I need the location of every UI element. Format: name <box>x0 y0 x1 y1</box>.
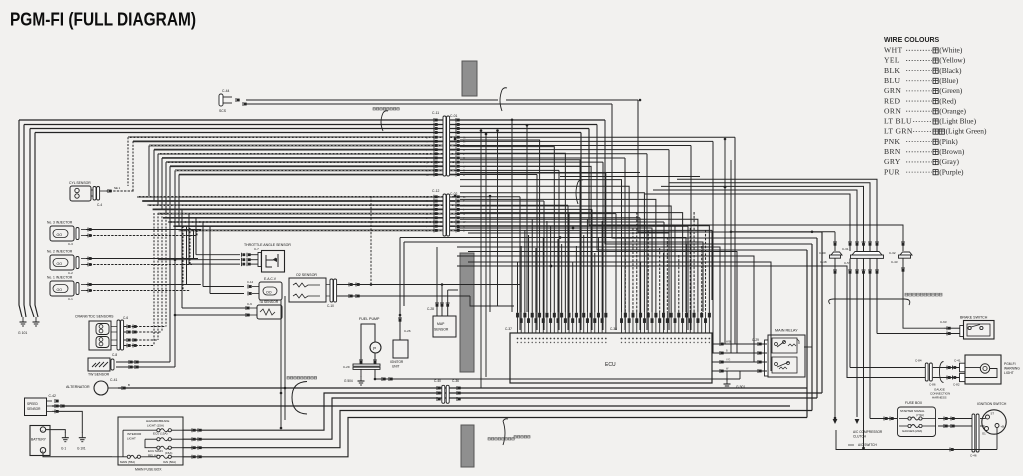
svg-text:LIGHT: LIGHT <box>1004 371 1014 375</box>
svg-text:−: − <box>42 429 44 433</box>
svg-text:C-29: C-29 <box>752 338 759 342</box>
svg-text:ECU: ECU <box>605 362 616 368</box>
svg-text:PUR: PUR <box>884 167 901 176</box>
svg-text:No. 2 INJECTOR: No. 2 INJECTOR <box>47 250 73 254</box>
svg-text:No. 3 INJECTOR: No. 3 INJECTOR <box>47 221 73 225</box>
svg-text:PGM-FI (FULL DIAGRAM): PGM-FI (FULL DIAGRAM) <box>10 9 196 30</box>
svg-text:C-41: C-41 <box>110 378 117 382</box>
svg-text:OO: OO <box>266 291 272 295</box>
svg-text:GRY: GRY <box>884 157 901 166</box>
svg-text:B: B <box>128 383 130 387</box>
svg-text:P: P <box>426 224 428 228</box>
svg-text:TA SENSOR: TA SENSOR <box>259 300 279 304</box>
svg-text:(Light Blue): (Light Blue) <box>939 117 976 126</box>
svg-text:+: + <box>42 449 44 453</box>
svg-text:C-38: C-38 <box>610 327 617 331</box>
svg-text:G: G <box>426 212 428 216</box>
svg-text:CYL SENSOR: CYL SENSOR <box>69 181 91 185</box>
svg-text:C-28: C-28 <box>427 307 434 311</box>
svg-text:A/C SWITCH: A/C SWITCH <box>858 443 877 447</box>
svg-text:WARNING: WARNING <box>1004 367 1020 371</box>
svg-text:UNIT: UNIT <box>392 364 399 368</box>
svg-text:Y: Y <box>426 208 428 212</box>
svg-text:C-11: C-11 <box>432 111 439 115</box>
svg-text:FUEL PUMP: FUEL PUMP <box>359 317 380 321</box>
svg-text:Br: Br <box>426 229 429 233</box>
svg-text:ST: ST <box>991 412 995 416</box>
svg-text:MAIN (55A): MAIN (55A) <box>120 460 135 464</box>
svg-text:THROTTLE ANGLE SENSOR: THROTTLE ANGLE SENSOR <box>244 243 291 247</box>
svg-text:WIRE COLOURS: WIRE COLOURS <box>884 37 940 44</box>
svg-text:C-7: C-7 <box>254 247 259 251</box>
svg-text:(Orange): (Orange) <box>939 106 966 115</box>
svg-text:MAIN FUSE BOX: MAIN FUSE BOX <box>135 468 162 472</box>
svg-text:R: R <box>426 199 428 203</box>
svg-text:R: R <box>426 140 428 144</box>
svg-text:BLU: BLU <box>884 76 901 85</box>
svg-text:C-26: C-26 <box>404 329 411 333</box>
svg-text:R: R <box>463 169 465 173</box>
svg-text:ECU (15A): ECU (15A) <box>153 432 168 436</box>
svg-text:C-32: C-32 <box>889 251 896 255</box>
svg-text:(7.5A): (7.5A) <box>916 413 924 417</box>
svg-text:C-63: C-63 <box>940 320 947 324</box>
svg-text:WHT: WHT <box>884 46 903 55</box>
svg-text:O: O <box>426 220 428 224</box>
svg-text:IGNITION SWITCH: IGNITION SWITCH <box>977 402 1007 406</box>
svg-text:W/B: W/B <box>726 341 731 344</box>
svg-text:C-14: C-14 <box>247 280 254 284</box>
svg-text:E.A.C.V: E.A.C.V <box>264 277 277 281</box>
svg-text:(Yellow): (Yellow) <box>939 56 965 65</box>
svg-text:(Red): (Red) <box>939 96 956 105</box>
svg-text:MAP: MAP <box>437 322 445 326</box>
svg-text:C-41: C-41 <box>954 359 961 363</box>
svg-text:PGM-FI: PGM-FI <box>1004 362 1016 366</box>
svg-text:Br: Br <box>426 169 429 173</box>
svg-text:C-6: C-6 <box>123 316 128 320</box>
svg-text:LT GRN: LT GRN <box>884 127 913 136</box>
svg-text:ECU MAIN: ECU MAIN <box>148 449 163 453</box>
svg-text:HAZARD/BRAKE: HAZARD/BRAKE <box>146 419 169 423</box>
svg-text:A/C COMPRESSOR: A/C COMPRESSOR <box>853 430 883 434</box>
svg-text:NE 1: NE 1 <box>114 186 121 190</box>
svg-text:ORN: ORN <box>884 106 901 115</box>
svg-text:G 101: G 101 <box>18 331 27 335</box>
svg-text:YEL: YEL <box>884 56 900 65</box>
svg-text:Gr: Gr <box>426 173 429 177</box>
svg-text:C-46: C-46 <box>970 454 977 458</box>
svg-text:O2 SENSOR: O2 SENSOR <box>296 273 317 277</box>
svg-text:C-84: C-84 <box>915 359 922 363</box>
svg-text:(Black): (Black) <box>939 66 962 75</box>
svg-text:(Brown): (Brown) <box>939 147 965 156</box>
svg-text:OO: OO <box>57 233 63 237</box>
svg-text:G1: G1 <box>982 432 986 436</box>
svg-text:C-8: C-8 <box>112 353 117 357</box>
svg-text:C-86: C-86 <box>929 383 936 387</box>
svg-text:GRN: GRN <box>884 86 901 95</box>
svg-text:C-10: C-10 <box>327 304 334 308</box>
svg-text:(Gray): (Gray) <box>939 157 959 166</box>
svg-text:CLUTCH: CLUTCH <box>853 435 867 439</box>
svg-text:LIGHT: LIGHT <box>127 437 136 441</box>
svg-text:P: P <box>373 346 376 351</box>
svg-text:Y/G: Y/G <box>726 359 730 362</box>
svg-text:PNK: PNK <box>884 137 901 146</box>
svg-text:Y: Y <box>426 148 428 152</box>
svg-text:C-12: C-12 <box>432 189 439 193</box>
svg-text:(Purple): (Purple) <box>939 167 964 176</box>
svg-text:C-01: C-01 <box>450 114 457 118</box>
svg-text:No. 1 INJECTOR: No. 1 INJECTOR <box>47 276 73 280</box>
svg-text:Y: Y <box>463 160 465 164</box>
svg-text:OO: OO <box>57 262 63 266</box>
svg-text:B: B <box>426 195 428 199</box>
svg-text:IGN (50A): IGN (50A) <box>163 460 176 464</box>
svg-text:O: O <box>463 203 465 207</box>
svg-text:MAIN RELAY: MAIN RELAY <box>775 329 798 333</box>
svg-text:O: O <box>426 160 428 164</box>
svg-text:SENSOR: SENSOR <box>434 328 449 332</box>
svg-text:C-82: C-82 <box>953 383 960 387</box>
svg-text:ALTERNATOR: ALTERNATOR <box>66 385 90 389</box>
svg-text:C-42: C-42 <box>49 394 56 398</box>
svg-text:SCS: SCS <box>219 109 227 113</box>
svg-text:G 101: G 101 <box>77 447 86 451</box>
svg-text:HARNESS: HARNESS <box>932 396 947 400</box>
svg-text:C-37: C-37 <box>505 327 512 331</box>
svg-text:BRAKE SWITCH: BRAKE SWITCH <box>960 316 988 320</box>
svg-text:C-9: C-9 <box>247 302 252 306</box>
svg-text:G: G <box>426 152 428 156</box>
svg-text:C-1: C-1 <box>68 297 73 301</box>
svg-text:C-30: C-30 <box>819 251 826 255</box>
svg-text:C-40: C-40 <box>434 379 441 383</box>
svg-text:C-36: C-36 <box>452 379 459 383</box>
svg-text:C-48: C-48 <box>820 260 827 264</box>
svg-text:(Light Green): (Light Green) <box>946 127 987 136</box>
svg-text:C-44: C-44 <box>222 89 229 93</box>
svg-text:G 504: G 504 <box>344 379 353 383</box>
svg-text:BLK: BLK <box>884 66 901 75</box>
svg-text:C-2: C-2 <box>68 271 73 275</box>
svg-text:C-31: C-31 <box>842 247 849 251</box>
svg-text:OO: OO <box>57 288 63 292</box>
svg-text:INTERIOR: INTERIOR <box>127 432 142 436</box>
svg-text:(Green): (Green) <box>939 86 963 95</box>
svg-text:O: O <box>463 148 465 152</box>
svg-text:C-4: C-4 <box>97 203 102 207</box>
svg-text:RED: RED <box>884 96 901 105</box>
svg-text:LT BLU: LT BLU <box>884 117 912 126</box>
svg-text:LIGHT (15A): LIGHT (15A) <box>147 424 164 428</box>
svg-text:FUSE BOX: FUSE BOX <box>905 401 923 405</box>
svg-text:+B: +B <box>1001 425 1005 429</box>
svg-text:Gr: Gr <box>463 135 466 139</box>
svg-text:Br: Br <box>463 195 466 199</box>
svg-text:(White): (White) <box>939 46 963 55</box>
svg-text:C-29: C-29 <box>343 365 350 369</box>
svg-text:GAUGES (20A): GAUGES (20A) <box>902 429 922 433</box>
svg-text:C-43: C-43 <box>891 260 898 264</box>
svg-text:TW SENSOR: TW SENSOR <box>88 373 110 377</box>
svg-text:CRANK/TDC SENSORS: CRANK/TDC SENSORS <box>75 315 114 319</box>
svg-text:G 1: G 1 <box>61 447 66 451</box>
svg-text:(Pink): (Pink) <box>939 137 958 146</box>
svg-text:B: B <box>426 135 428 139</box>
svg-text:BATTERY: BATTERY <box>31 438 47 442</box>
svg-text:(15A): (15A) <box>165 451 172 455</box>
svg-text:P: P <box>426 164 428 168</box>
svg-text:(Blue): (Blue) <box>939 76 958 85</box>
svg-text:C-3: C-3 <box>68 242 73 246</box>
svg-text:SPEED: SPEED <box>27 402 39 406</box>
svg-text:B: B <box>463 229 465 233</box>
svg-text:BRN: BRN <box>884 147 901 156</box>
svg-text:SENSOR: SENSOR <box>27 407 41 411</box>
